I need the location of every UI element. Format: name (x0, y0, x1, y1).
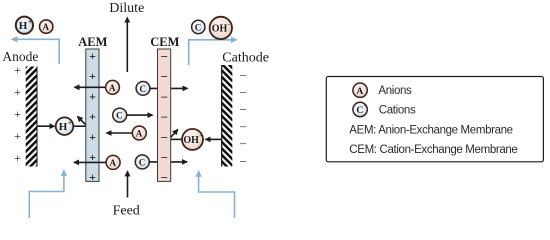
arrow C+ through CEM (row 1) (150, 87, 188, 89)
svg-text:+: + (14, 129, 21, 143)
svg-text:+: + (14, 85, 21, 99)
concentrate inlet arrow left (blue) (29, 171, 64, 219)
svg-text:-: - (228, 21, 230, 28)
anode charge '+' column (14, 63, 21, 165)
AEM fixed charges '+' (89, 49, 96, 184)
svg-text:–: – (239, 101, 247, 115)
arrow OH- rejected at CEM (diagonal) (171, 130, 178, 138)
arrow anode to H+ (38, 125, 55, 127)
legend ion A- (353, 83, 367, 97)
CEM membrane bar (158, 49, 171, 181)
svg-text:+: + (68, 119, 72, 127)
svg-text:–: – (160, 150, 168, 164)
svg-text:A: A (110, 158, 117, 168)
svg-text:Feed: Feed (113, 204, 140, 218)
ion C+ (row 4) (135, 155, 149, 169)
svg-text:-: - (199, 133, 201, 140)
svg-text:+: + (89, 130, 96, 144)
svg-text:–: – (239, 118, 247, 132)
svg-text:C: C (139, 84, 146, 94)
svg-text:AEM: Anion-Exchange Membrane: AEM: Anion-Exchange Membrane (349, 124, 512, 136)
svg-text:C: C (195, 23, 202, 33)
svg-text:+: + (89, 170, 96, 184)
svg-text:OH: OH (183, 135, 199, 146)
svg-text:Dilute: Dilute (109, 1, 144, 16)
ion C+ (top right) (192, 20, 205, 33)
svg-text:–: – (239, 67, 247, 81)
svg-text:C: C (356, 106, 363, 116)
svg-text:+: + (363, 103, 367, 109)
svg-text:–: – (160, 69, 168, 83)
legend box (326, 77, 543, 162)
arrow cathode to OH- (206, 138, 222, 140)
svg-text:+: + (89, 89, 96, 103)
arrow C+ through CEM (row 4) (150, 161, 188, 163)
ion A- (top left) (40, 20, 53, 33)
svg-text:–: – (160, 109, 168, 123)
arrow A- through AEM (row 1) (75, 86, 107, 88)
svg-text:–: – (239, 136, 247, 150)
svg-text:–: – (160, 129, 168, 143)
legend ion C+ (353, 102, 367, 116)
svg-text:+: + (89, 69, 96, 83)
arrow C+ toward CEM (row 2) (127, 114, 153, 116)
svg-text:Anode: Anode (2, 49, 38, 64)
ion A- (row 1) (106, 80, 120, 94)
anode electrode (hatched) (26, 67, 38, 167)
svg-text:+: + (14, 151, 21, 165)
svg-text:A: A (356, 87, 363, 97)
svg-text:+: + (14, 107, 21, 121)
ion A- (row 3) (132, 126, 146, 140)
svg-text:–: – (160, 170, 168, 184)
svg-text:CEM: CEM (150, 35, 179, 49)
svg-text:Cations: Cations (379, 105, 416, 117)
feed inlet arrow (127, 171, 129, 197)
svg-text:–: – (239, 153, 247, 167)
svg-text:–: – (160, 89, 168, 103)
svg-text:OH: OH (212, 24, 228, 35)
svg-text:A: A (136, 129, 143, 139)
svg-text:+: + (28, 18, 32, 26)
ion H+ (anode compartment) (56, 117, 74, 135)
ion H+ (top left) (16, 17, 33, 34)
svg-text:AEM: AEM (78, 35, 107, 49)
wire H+ to AEM (73, 125, 86, 127)
arrow A- toward AEM (row 3) (107, 132, 132, 134)
CEM fixed charges '-' (160, 49, 168, 184)
svg-text:–: – (160, 49, 168, 63)
arrow A- through AEM (row 4) (74, 161, 106, 163)
svg-text:+: + (89, 49, 96, 63)
dilute outlet arrow (up) (126, 18, 128, 73)
ion C+ (row 1) (136, 82, 150, 96)
wire OH- to CEM (171, 138, 182, 140)
arrow H+ rejected at AEM (diagonal) (78, 117, 87, 126)
ion OH- (top right) (210, 17, 232, 39)
svg-text:C: C (116, 111, 123, 121)
svg-text:+: + (89, 110, 96, 124)
AEM membrane bar (86, 49, 99, 181)
ion C+ (row 2) (113, 108, 127, 122)
catholyte outlet arrow (blue, top right) (189, 40, 237, 65)
svg-text:A: A (43, 22, 50, 32)
cathode charge '-' column (239, 67, 247, 167)
cathode electrode (hatched) (221, 65, 232, 167)
svg-text:-: - (50, 21, 52, 27)
svg-text:H: H (59, 121, 68, 133)
ion A- (row 4) (106, 155, 120, 169)
svg-text:Anions: Anions (378, 85, 412, 97)
ion OH- (cathode compartment) (182, 129, 203, 150)
anolyte outlet arrow (blue, top left) (12, 39, 59, 64)
svg-text:Cathode: Cathode (222, 51, 269, 66)
svg-text:H: H (19, 20, 28, 32)
svg-text:CEM: Cation-Exchange Membrane: CEM: Cation-Exchange Membrane (349, 144, 517, 156)
svg-text:C: C (139, 157, 146, 167)
svg-text:–: – (239, 84, 247, 98)
svg-text:-: - (364, 84, 366, 90)
concentrate inlet arrow right (blue) (199, 171, 235, 218)
svg-text:+: + (14, 63, 21, 77)
svg-text:A: A (109, 83, 116, 93)
